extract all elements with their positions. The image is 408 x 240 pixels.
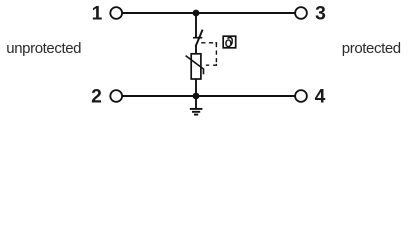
wire varistor to bottom node	[195, 79, 197, 96]
svg-text:1: 1	[92, 4, 103, 25]
thermal indicator box	[223, 36, 236, 48]
varistor diagonal	[186, 56, 204, 75]
svg-text:protected: protected	[342, 40, 401, 57]
dashed mechanical link from disconnector to indicator and varistor	[201, 43, 217, 65]
disconnector blade	[196, 30, 203, 47]
svg-text:2: 2	[91, 87, 102, 108]
svg-text:3: 3	[315, 4, 326, 25]
svg-text:4: 4	[315, 87, 326, 108]
ground bar 3	[194, 114, 198, 116]
junction dot bottom node	[193, 93, 200, 100]
ground bar 1	[190, 108, 203, 110]
wire top line 1-3	[122, 12, 295, 14]
terminal circle 3	[295, 7, 307, 19]
ground bar 2	[192, 111, 200, 113]
terminal circle 4	[295, 90, 307, 102]
wire bottom line 2-4	[122, 95, 295, 97]
wire vertical from top node to disconnector	[195, 13, 197, 37]
terminal circle 1	[110, 7, 122, 19]
junction dot top node	[193, 10, 200, 17]
varistor body	[191, 54, 201, 79]
disconnector contact tick	[193, 37, 202, 39]
wire bottom node to ground	[195, 96, 197, 109]
wire blade to varistor	[195, 46, 197, 54]
terminal circle 2	[110, 90, 122, 102]
svg-text:unprotected: unprotected	[6, 40, 81, 57]
thermal indicator theta symbol	[226, 38, 232, 47]
